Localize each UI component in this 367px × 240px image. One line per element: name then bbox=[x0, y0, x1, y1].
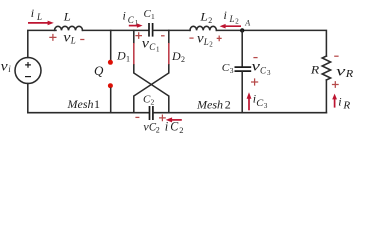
svg-text:2: 2 bbox=[235, 18, 239, 26]
label iC2 bbox=[165, 120, 184, 135]
svg-text:3: 3 bbox=[230, 66, 234, 75]
switch Q terminal dot upper bbox=[108, 60, 113, 65]
wire: C3 branch lower bbox=[241, 72, 243, 113]
svg-text:3: 3 bbox=[264, 102, 268, 110]
svg-text:L: L bbox=[203, 37, 209, 47]
label C2 bbox=[143, 94, 155, 107]
wire: left rail bottom (source to bottom rail) bbox=[27, 84, 29, 113]
diode D2 branch: top black segment bbox=[168, 30, 170, 43]
inductor L2 bbox=[190, 26, 216, 30]
diode D1 branch: top black segment bbox=[133, 30, 135, 43]
wire: right rail below resistor bbox=[325, 80, 327, 113]
svg-text:R: R bbox=[342, 100, 350, 111]
diode D2 lower black segment and diagonal to left landing bbox=[134, 65, 169, 113]
label Mesh2 bbox=[196, 98, 231, 112]
svg-text:C: C bbox=[260, 65, 267, 75]
svg-text:L: L bbox=[229, 14, 235, 24]
svg-text:2: 2 bbox=[151, 98, 155, 107]
label Mesh1 bbox=[67, 97, 101, 111]
voltage source v_i bbox=[15, 58, 41, 84]
wire: bottom rail right (C2 to right corner) bbox=[153, 112, 326, 114]
svg-text:Mesh: Mesh bbox=[196, 98, 223, 112]
current arrow i_L bbox=[28, 21, 54, 26]
svg-text:2: 2 bbox=[208, 16, 212, 25]
diode D1 red segment bbox=[133, 43, 135, 65]
svg-text:1: 1 bbox=[151, 12, 155, 21]
svg-text:1: 1 bbox=[126, 55, 130, 64]
inductor L bbox=[55, 26, 83, 30]
labels + v_L - bbox=[49, 31, 84, 46]
current arrow i_L2 (pointing left) bbox=[220, 24, 241, 29]
node A dot bbox=[240, 28, 244, 32]
svg-text:1: 1 bbox=[156, 45, 160, 53]
svg-text:i: i bbox=[165, 120, 169, 134]
current arrow i_C3 bbox=[247, 92, 252, 110]
svg-text:C: C bbox=[170, 120, 179, 134]
label i_L bbox=[31, 6, 42, 22]
label C3 bbox=[222, 62, 234, 75]
svg-text:L: L bbox=[199, 9, 208, 23]
wire: top rail from L to C1 bbox=[83, 29, 149, 31]
svg-text:2: 2 bbox=[181, 55, 185, 64]
resistor R zigzag bbox=[322, 56, 330, 80]
svg-text:L: L bbox=[36, 12, 42, 22]
capacitor C1 bbox=[149, 23, 153, 37]
capacitor C3 bbox=[235, 67, 252, 71]
label v_i bbox=[1, 60, 12, 75]
current arrow i_C1 bbox=[129, 23, 143, 27]
label i_C1 bbox=[123, 9, 139, 28]
label i_L2 bbox=[224, 8, 240, 26]
svg-text:Q: Q bbox=[94, 63, 104, 78]
wire: left rail top (source to top-left corner to coil) bbox=[28, 30, 56, 57]
label D1 bbox=[116, 49, 130, 64]
svg-text:2: 2 bbox=[179, 125, 183, 135]
svg-text:i: i bbox=[224, 8, 227, 22]
svg-text:Mesh: Mesh bbox=[67, 97, 94, 111]
current arrow i_R bbox=[332, 94, 337, 108]
wire: bottom rail left (source to C2) bbox=[28, 112, 149, 114]
svg-text:D: D bbox=[171, 49, 181, 63]
svg-text:R: R bbox=[345, 69, 354, 80]
labels - vC2 + bbox=[135, 115, 165, 135]
svg-text:i: i bbox=[123, 9, 126, 23]
label i_R bbox=[338, 94, 350, 111]
label D2 bbox=[171, 49, 185, 64]
svg-text:D: D bbox=[116, 49, 126, 63]
wire: C3 branch upper bbox=[241, 30, 243, 66]
diode D1 lower black segment and diagonal to right landing bbox=[134, 65, 169, 113]
svg-text:2: 2 bbox=[156, 125, 160, 134]
svg-text:2: 2 bbox=[225, 98, 231, 112]
svg-text:L: L bbox=[70, 36, 76, 46]
wire: top rail from L2 to right corner, down to resistor bbox=[216, 30, 326, 56]
labels + v_C1 - bbox=[135, 32, 164, 53]
labels - v_C3 + bbox=[251, 58, 271, 86]
svg-text:i: i bbox=[31, 6, 34, 20]
svg-text:A: A bbox=[244, 19, 250, 28]
wire: top rail from C1 to L2 bbox=[153, 29, 190, 31]
svg-text:2: 2 bbox=[209, 41, 213, 49]
labels - v_R + bbox=[332, 56, 353, 88]
svg-text:1: 1 bbox=[94, 97, 100, 111]
capacitor C2 bbox=[150, 106, 153, 120]
switch Q branch upper wire bbox=[110, 30, 112, 59]
current arrow i_C2 (pointing left) bbox=[166, 117, 182, 122]
label i_C3 bbox=[253, 92, 268, 111]
label L2 bbox=[199, 9, 212, 25]
labels - v_L2 + bbox=[189, 32, 221, 49]
svg-text:L: L bbox=[63, 10, 71, 24]
switch Q branch lower wire bbox=[110, 88, 112, 112]
svg-text:i: i bbox=[338, 94, 341, 108]
switch Q terminal dot lower bbox=[108, 83, 113, 88]
svg-text:3: 3 bbox=[267, 69, 271, 77]
svg-text:C: C bbox=[128, 15, 135, 25]
svg-text:R: R bbox=[310, 63, 320, 77]
label C1 bbox=[144, 8, 156, 21]
diode D2 red segment bbox=[168, 43, 170, 65]
